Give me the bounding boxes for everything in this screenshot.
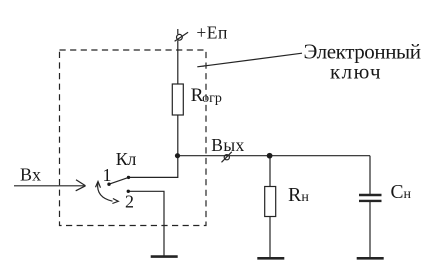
terminal +Ep circle	[177, 34, 183, 40]
wire: Cn to ground	[369, 202, 371, 258]
terminal +Ep slash	[175, 32, 189, 41]
switch Kl lever	[109, 177, 129, 184]
capacitor Cn top plate	[359, 194, 382, 196]
wire: +Ep stub above terminal	[177, 29, 179, 34]
switch contact 1 dot	[127, 176, 130, 179]
svg-text:Кл: Кл	[116, 149, 137, 169]
resistor Rn body	[265, 187, 276, 217]
switch pivot dot	[107, 183, 110, 186]
arrowhead on Vx input line	[76, 180, 86, 186]
wire: terminal to resistor Rogr	[177, 40, 179, 84]
wire: main horizontal output bus	[178, 155, 370, 157]
node dot at Rogr output	[175, 153, 180, 158]
wire: Rogr to node	[177, 115, 179, 156]
wire: contact 1 to node	[129, 156, 178, 178]
ground under contact 2	[151, 255, 178, 258]
wire: contact 2 to ground	[128, 191, 164, 255]
svg-text:+Еп: +Еп	[196, 22, 227, 42]
dashed box (electronic key outline)	[60, 50, 207, 226]
svg-text:ключ: ключ	[330, 60, 381, 84]
svg-text:Вх: Вх	[20, 165, 41, 185]
terminal Vykh slash	[222, 152, 232, 163]
svg-text:1: 1	[103, 165, 112, 185]
wire: junction to Rn	[269, 156, 271, 187]
leader line from "Electronic key" label to dashed box	[203, 53, 303, 66]
ground under Rn	[257, 257, 284, 260]
resistor Rogr body	[172, 84, 183, 115]
terminal Vykh circle	[224, 155, 229, 160]
switch contact 2 dot	[127, 190, 130, 193]
capacitor Cn bottom plate	[359, 200, 382, 202]
svg-text:Вых: Вых	[211, 135, 244, 155]
ground under Cn	[357, 257, 384, 260]
wire: Vx input line	[14, 185, 86, 187]
svg-text:2: 2	[125, 192, 134, 212]
switch toggle curved arrow	[98, 183, 113, 201]
junction dot at Rn	[267, 153, 273, 159]
wire: Rn to ground	[269, 217, 271, 258]
wire: bus corner down to Cn	[369, 156, 371, 195]
